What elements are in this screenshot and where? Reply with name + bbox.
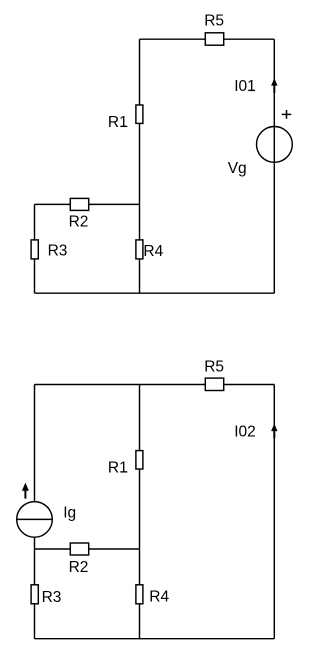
current source Ig bar	[17, 518, 53, 520]
wire top circuit R2 branch horizontal	[35, 203, 140, 205]
wire top circuit right vertical rail	[273, 39, 275, 293]
resistor R2 (top circuit)	[70, 198, 88, 210]
svg-text:R3: R3	[42, 589, 62, 606]
svg-text:R3: R3	[48, 243, 68, 260]
current arrow I01	[271, 78, 277, 93]
svg-text:R5: R5	[204, 358, 224, 375]
current arrow I02	[271, 424, 277, 439]
plus sign of Vg	[282, 110, 291, 119]
svg-text:Vg: Vg	[228, 160, 247, 177]
wire bottom circuit left vertical rail	[34, 385, 36, 639]
wire top circuit bottom rail	[35, 292, 275, 294]
current source Ig direction arrow	[22, 483, 29, 499]
wire top circuit left vertical rail	[34, 204, 36, 293]
svg-text:R2: R2	[69, 214, 89, 231]
resistor R1 (bottom circuit)	[136, 451, 143, 469]
resistor R1 (top circuit)	[136, 105, 143, 123]
wire bottom circuit middle vertical rail	[139, 385, 141, 639]
wire bottom circuit right vertical rail	[273, 385, 275, 639]
resistor R4 (top circuit)	[136, 240, 143, 259]
svg-text:R4: R4	[149, 589, 169, 606]
svg-text:I01: I01	[234, 78, 256, 95]
wire bottom circuit top rail	[35, 384, 275, 386]
svg-text:I02: I02	[234, 424, 256, 441]
wire top circuit middle vertical rail	[139, 39, 141, 293]
resistor R3 (bottom circuit)	[31, 585, 38, 604]
resistor R3 (top circuit)	[31, 240, 38, 259]
resistor R5 (bottom circuit)	[205, 378, 223, 390]
svg-text:R1: R1	[108, 114, 128, 131]
svg-text:R2: R2	[69, 559, 89, 576]
digit-1 foot serifs (to match reference font)	[121, 90, 256, 473]
current source Ig circle	[17, 502, 53, 538]
wire top circuit top rail	[140, 38, 275, 40]
resistor R5 (top circuit)	[205, 33, 223, 45]
svg-text:R5: R5	[204, 13, 224, 30]
svg-text:Ig: Ig	[63, 504, 76, 521]
wire bottom circuit bottom rail	[35, 638, 275, 640]
svg-text:R1: R1	[108, 460, 128, 477]
resistor R2 (bottom circuit)	[70, 543, 88, 555]
resistor R4 (bottom circuit)	[136, 585, 143, 604]
svg-text:R4: R4	[143, 243, 163, 260]
wire bottom circuit R2 branch horizontal	[35, 548, 140, 550]
voltage source Vg circle	[257, 126, 293, 162]
